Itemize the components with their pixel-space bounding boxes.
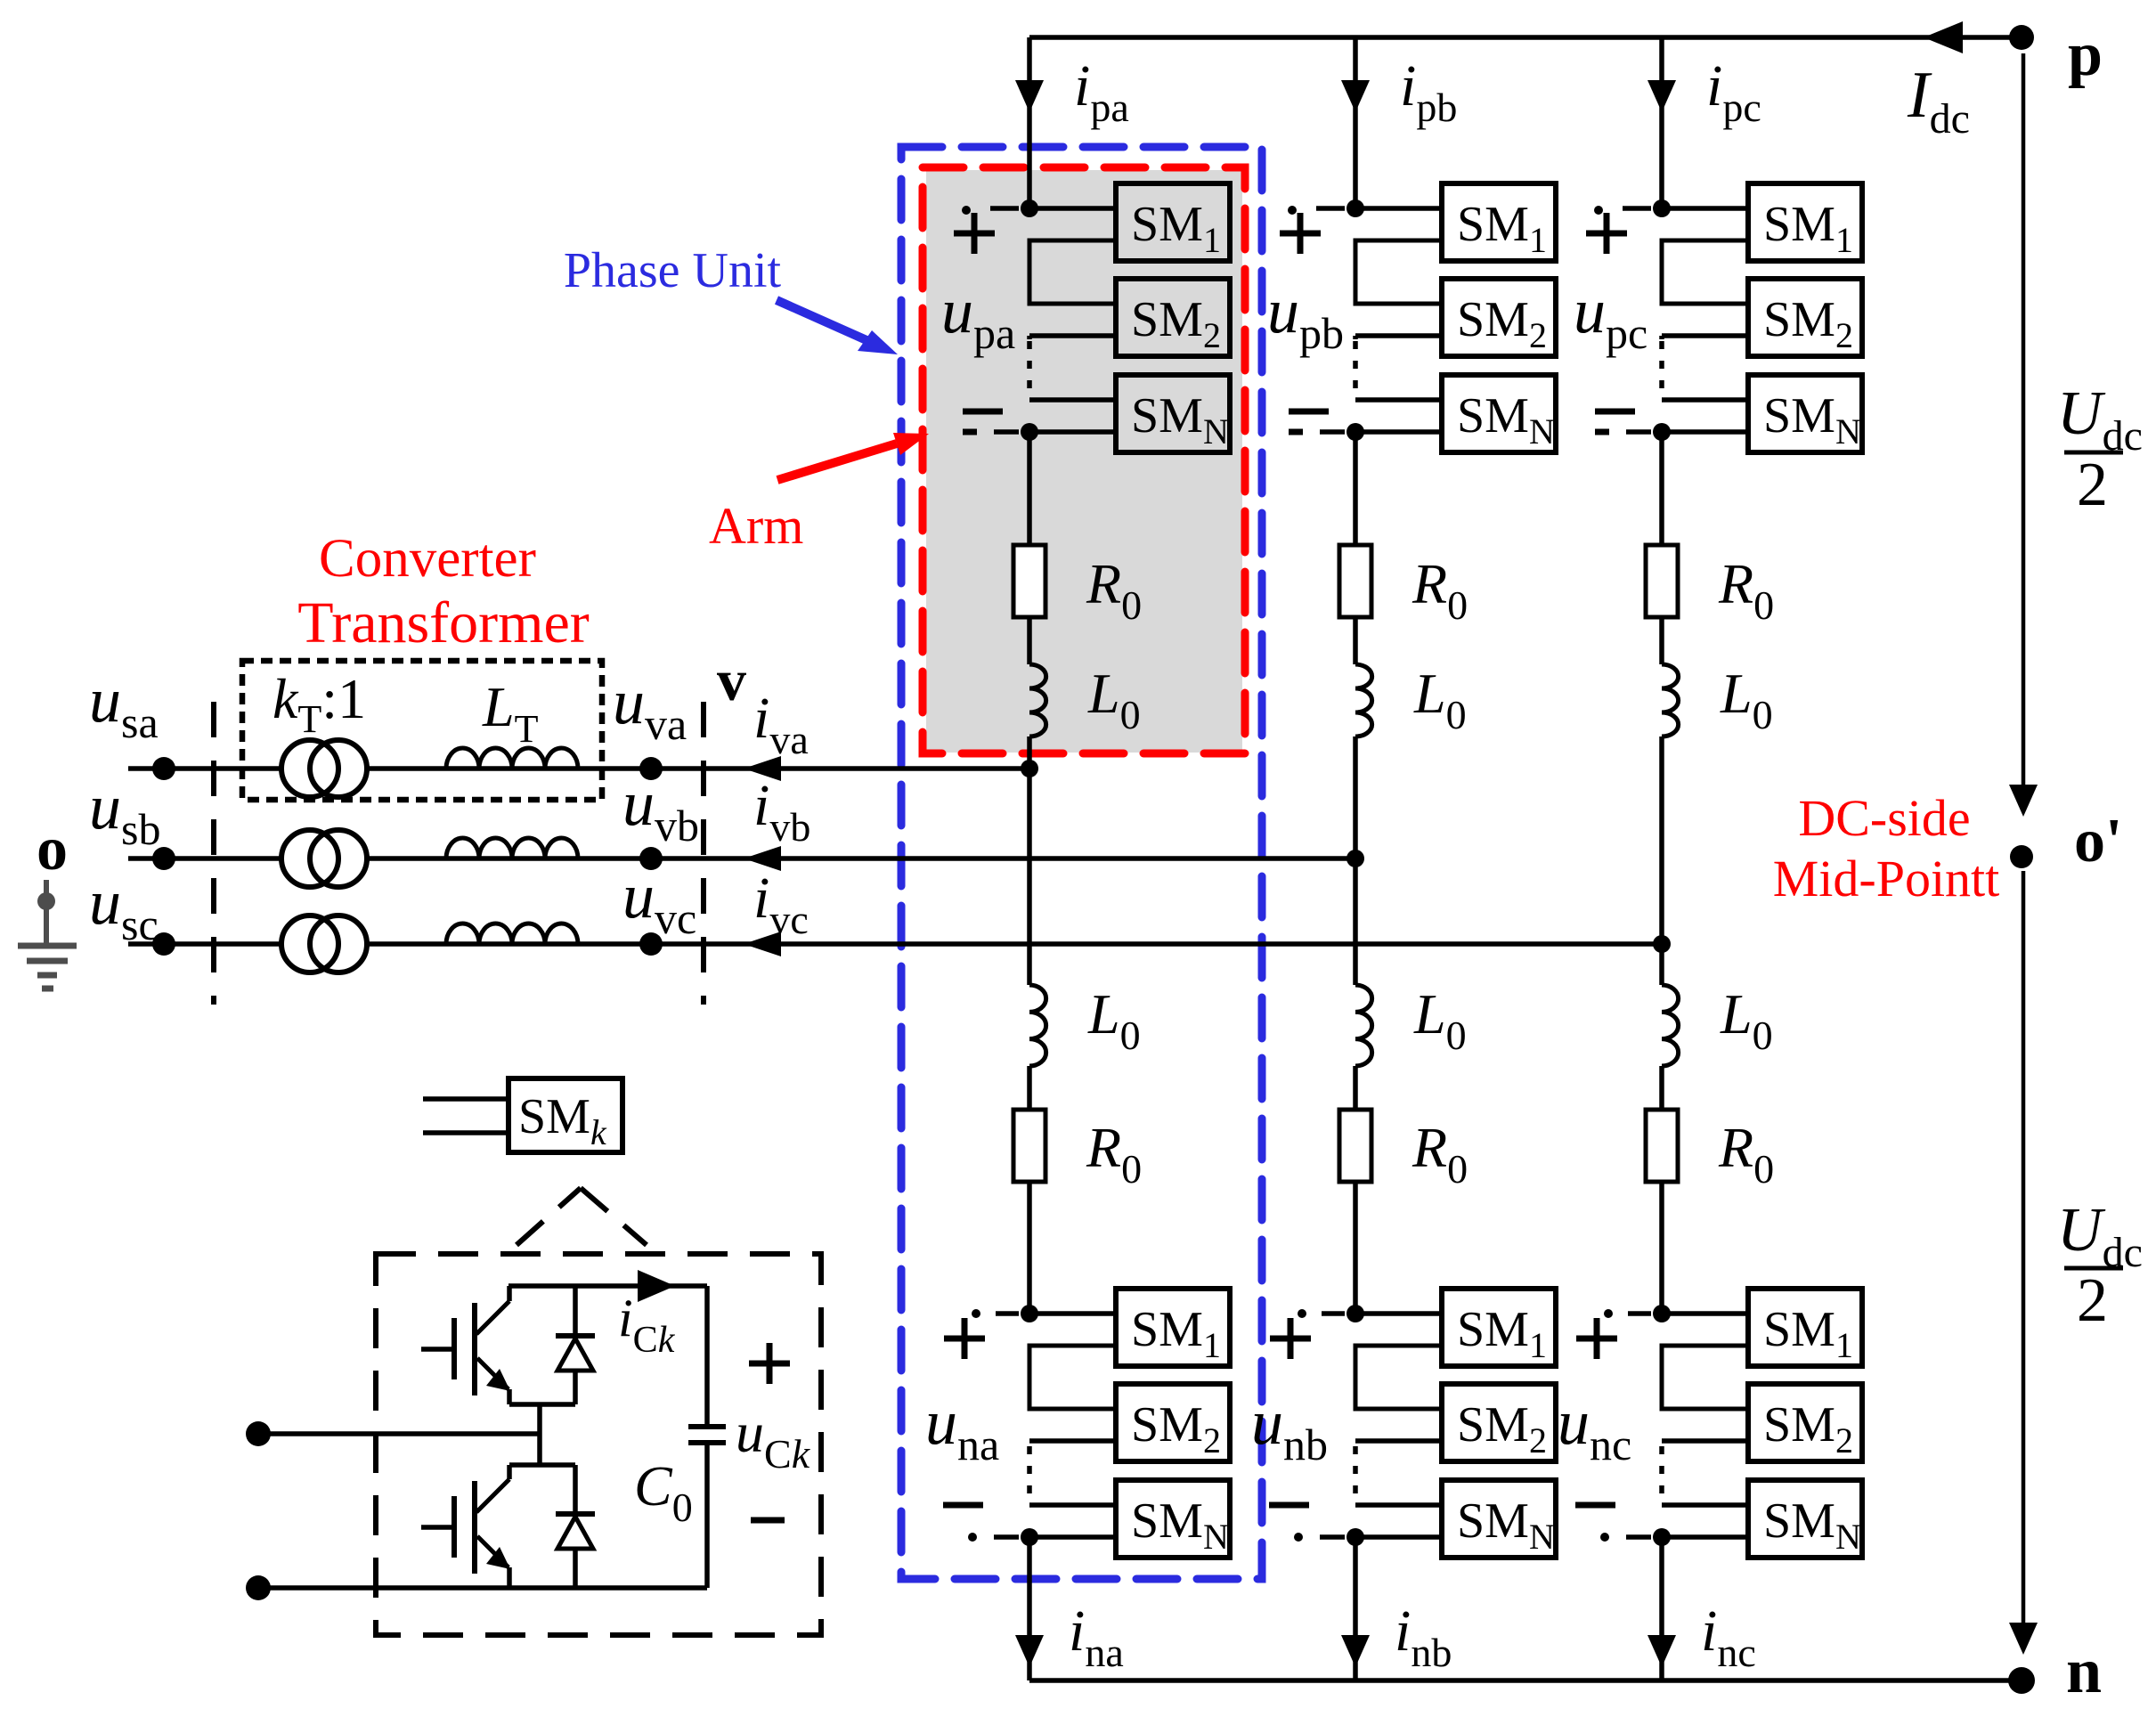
wire: right rail p to o' with arrow [2022,53,2026,785]
node: source terminal u_sa [152,757,175,780]
phase unit blue dashed box [901,147,1262,1579]
node: lower arm b minus junction [1346,1528,1364,1546]
SM detail dashed box [376,1254,821,1635]
svg-text:Transformer: Transformer [297,590,590,655]
dotted continuation upper a [1027,341,1032,396]
node: upper arm a plus junction [1021,199,1038,217]
wire: AC node to L0 lower b [1353,858,1358,985]
svg-text:n: n [2066,1635,2102,1706]
arrow i_vb [744,846,781,871]
node: AC junction c [1653,935,1671,953]
wire: lower stack to bottom bus b [1353,1537,1358,1680]
wire: midpoint stub [537,1404,542,1465]
wire: SMN top stub lower a [1029,1502,1116,1508]
submodule SM1 upper arm b [1442,183,1556,261]
minus sign lower arm a [943,1502,983,1509]
transformer phase b circles [281,830,367,887]
inductor L0 lower arm b [1355,985,1372,1066]
wire: SM1-SM2 link upper c [1662,240,1748,304]
node: lower arm a plus junction [1021,1305,1038,1322]
wire: R0 to lower stack plus junction b [1353,1182,1358,1314]
wire: SMN bottom to minus junction upper c [1662,429,1748,435]
submodule SMN lower arm a [1116,1480,1230,1558]
resistor R0 lower arm b [1339,1110,1371,1182]
minus sign capacitor [751,1518,785,1524]
wire: SMN bottom to minus junction upper a [1029,429,1116,435]
wire: top rail of half bridge [508,1283,707,1289]
wire: AC node to L0 lower c [1659,944,1664,985]
wire: SM1 top link upper b [1355,206,1442,211]
wire: minus junction to R0 upper c [1659,432,1664,545]
dotted continuation lower b [1353,1446,1358,1501]
submodule SM1 lower arm c [1748,1289,1862,1366]
transformer phase c circles [281,915,367,972]
wire: SM2 bottom stub lower a [1029,1438,1116,1444]
wire: SM1 top link lower b [1355,1311,1442,1316]
wire: SM1-SM2 link upper b [1355,240,1442,304]
Idc arrow on top bus [1924,21,1963,53]
wire: bottom rail of half bridge [258,1585,707,1591]
submodule SMN upper arm a [1116,375,1230,452]
svg-text:Mid-Pointt: Mid-Pointt [1773,850,2000,907]
label Udc/2 upper [2057,379,2143,519]
svg-text:Phase Unit: Phase Unit [564,243,782,298]
lead dash-dot at plus terminal b [1288,206,1345,215]
wire: AC phase c line [128,941,282,947]
diode D1 (upper) [556,1286,595,1404]
plus sign capacitor [749,1343,790,1384]
node: upper arm c plus junction [1653,199,1671,217]
wire: SM2 bottom stub upper b [1355,333,1442,338]
wire: L0 to AC node c [1659,736,1664,944]
wire: SM1-SM2 link lower c [1662,1346,1748,1409]
arrow i_va [744,756,781,781]
submodule SMN upper arm b [1442,375,1556,452]
wire: R0 to L0 upper c [1659,617,1664,664]
submodule SM1 lower arm a [1116,1289,1230,1366]
resistor R0 upper arm b [1339,545,1371,617]
svg-text:p: p [2068,20,2103,89]
svg-text:2: 2 [2077,1266,2108,1335]
dashed boundary line at source side [211,702,216,1005]
minus sign upper arm a [963,411,1003,432]
transistor Q2 (lower IGBT) [421,1465,510,1588]
submodule SM1 upper arm c [1748,183,1862,261]
dotted continuation upper c [1659,341,1664,396]
submodule SM1 upper arm a [1116,183,1230,261]
wire: SMN top stub lower c [1662,1502,1748,1508]
wire: L0 to AC node a [1027,736,1032,769]
node: upper arm c minus junction [1653,423,1671,441]
node: lower arm c plus junction [1653,1305,1671,1322]
wire: SMN top stub upper c [1662,397,1748,403]
inductor L0 lower arm c [1662,985,1679,1066]
arrow i_nb [1341,1635,1370,1667]
node: SMk input terminal 1 [246,1421,271,1446]
resistor R0 upper arm a [1013,545,1045,617]
wire: R0 to lower stack plus junction c [1659,1182,1664,1314]
minus sign lower arm b [1269,1502,1309,1509]
wire: SMk stub top [423,1096,508,1102]
label Converter Transformer [297,529,590,655]
wire: SMN bottom to minus junction upper b [1355,429,1442,435]
wire: SMN bottom to minus junction lower b [1355,1534,1442,1540]
node p dot [2009,25,2034,50]
submodule SMN upper arm c [1748,375,1862,452]
inductor L_T phase b [446,838,578,858]
svg-text:Arm: Arm [709,497,803,555]
arrow i_nc [1648,1635,1676,1667]
wire: SM1 top link upper c [1662,206,1748,211]
wire: SMN bottom to minus junction lower c [1662,1534,1748,1540]
resistor R0 lower arm c [1646,1110,1678,1182]
dotted continuation lower a [1027,1446,1032,1501]
wire: AC phase a line [128,766,282,771]
node: lower arm c minus junction [1653,1528,1671,1546]
wire: minus junction to R0 upper a [1027,432,1032,545]
wire: bottom DC bus n rail [1029,1678,2022,1683]
node: AC junction b [1346,850,1364,867]
lead dash-dot at plus terminal a [962,206,1019,215]
wire: SM2 bottom stub upper a [1029,333,1116,338]
node: upper arm a minus junction [1021,423,1038,441]
arrow i_pb [1341,80,1370,112]
wire: right rail o' to n with arrow [2022,871,2026,1623]
capacitor C0 [688,1286,726,1588]
plus sign upper arm a [954,213,995,254]
submodule SM1 lower arm b [1442,1289,1556,1366]
wire: leg a from top bus to upper arm [1027,37,1032,208]
dashed boundary line at valve side v [701,702,706,1005]
wire: L0 to R0 lower a [1027,1066,1032,1110]
node o' dot [2010,845,2033,868]
node: valve-side terminal u_va [639,757,663,780]
node: SMk input terminal 2 [246,1575,271,1600]
plus sign upper arm b [1280,213,1321,254]
inductor L0 upper arm b [1355,664,1372,736]
submodule SM2 lower arm a [1116,1384,1230,1461]
wire: input lead upper [258,1431,540,1436]
wire: SMN top stub upper a [1029,397,1116,403]
blue arrow to phase unit [777,300,898,354]
wire: SM1 top link lower a [1029,1311,1116,1316]
dashed expansion lines [517,1188,647,1245]
node: AC junction a [1021,760,1038,777]
submodule SM2 lower arm c [1748,1384,1862,1461]
node: source terminal u_sb [152,847,175,870]
resistor R0 lower arm a [1013,1110,1045,1182]
wire: R0 to L0 upper a [1027,617,1032,664]
node: valve-side terminal u_vb [639,847,663,870]
wire: leg c from top bus to upper arm [1659,37,1664,208]
lead dash-dot at plus terminal lower c [1604,1309,1651,1318]
arrow i_pa [1015,80,1044,112]
svg-text:2: 2 [2077,451,2108,519]
wire: SM2 bottom stub lower c [1662,1438,1748,1444]
plus sign upper arm c [1586,213,1627,254]
arrow i_na [1015,1635,1044,1667]
transformer phase a circles [281,740,367,797]
node n dot [2008,1667,2035,1694]
resistor R0 upper arm c [1646,545,1678,617]
svg-text:o: o [37,815,68,883]
wire: minus junction to R0 upper b [1353,432,1358,545]
red arrow to arm [777,433,929,480]
svg-text:DC-side: DC-side [1798,789,1970,847]
wire: AC phase b line [128,856,282,861]
wire: SM1-SM2 link lower a [1029,1346,1116,1409]
wire: SMk stub bottom [423,1130,508,1135]
wire: SM1 top link upper a [1029,206,1116,211]
node: upper arm b minus junction [1346,423,1364,441]
submodule SMk reference box [508,1078,622,1152]
arrow i_pc [1648,80,1676,112]
plus sign lower arm b [1270,1318,1311,1359]
submodule SM2 upper arm c [1748,279,1862,356]
lead dash-dot at plus terminal lower b [1298,1309,1345,1318]
inductor L0 lower arm a [1029,985,1046,1066]
wire: lower collector rail [509,1462,575,1468]
wire: AC node to L0 lower a [1027,769,1032,985]
wire: SM1-SM2 link upper a [1029,240,1116,304]
lead dash-dot at minus terminal lower c [1600,1533,1651,1542]
wire: SM2 bottom stub upper c [1662,333,1748,338]
node: lower arm a minus junction [1021,1528,1038,1546]
wire: SMN top stub upper b [1355,397,1442,403]
submodule SM2 lower arm b [1442,1384,1556,1461]
converter transformer dotted box [242,661,602,800]
lead dash-dot at minus terminal lower b [1294,1533,1345,1542]
minus sign upper arm b [1289,411,1329,432]
submodule SMN lower arm b [1442,1480,1556,1558]
wire: top DC bus p rail [1029,35,2022,40]
wire: SM1-SM2 link lower b [1355,1346,1442,1409]
minus sign upper arm c [1595,411,1635,432]
dotted continuation upper b [1353,341,1358,396]
minus sign lower arm c [1575,1502,1615,1509]
label Udc/2 lower [2057,1196,2143,1335]
wire: L0 to R0 lower c [1659,1066,1664,1110]
wire: L0 to AC node b [1353,736,1358,858]
inductor L_T phase a [446,748,578,769]
dotted continuation lower c [1659,1446,1664,1501]
arrow i_vc [744,932,781,956]
diode D2 (lower) [556,1465,595,1588]
wire: SMN bottom to minus junction lower a [1029,1534,1116,1540]
lead dash at minus terminal upper a [994,429,1019,435]
plus sign lower arm c [1576,1318,1617,1359]
label DC-side Mid-Pointt [1773,789,2000,907]
svg-text:Converter: Converter [319,529,536,589]
wire: SM1 top link lower c [1662,1311,1748,1316]
lead dash-dot at plus terminal c [1594,206,1651,215]
inductor L_T phase c [446,924,578,944]
wire: upper emitter rail [509,1402,575,1407]
wire: SMN top stub lower b [1355,1502,1442,1508]
wire: R0 to lower stack plus junction a [1027,1182,1032,1314]
lead dash-dot at plus terminal lower a [972,1309,1019,1318]
ground symbol [18,880,77,989]
node: source terminal u_sc [152,932,175,956]
inductor L0 upper arm a [1029,664,1046,736]
inductor L0 upper arm c [1662,664,1679,736]
lead dash-dot at minus terminal lower a [968,1533,1019,1542]
submodule SMN lower arm c [1748,1480,1862,1558]
wire: L0 to R0 lower b [1353,1066,1358,1110]
wire: R0 to L0 upper b [1353,617,1358,664]
transistor Q1 (upper IGBT) [421,1286,510,1404]
node: upper arm b plus junction [1346,199,1364,217]
svg-text:o': o' [2074,807,2122,875]
plus sign lower arm a [944,1318,985,1359]
lead dash at minus terminal upper b [1320,429,1345,435]
submodule SM2 upper arm a [1116,279,1230,356]
node: lower arm b plus junction [1346,1305,1364,1322]
lead dash at minus terminal upper c [1626,429,1651,435]
arm grey highlight (phase a upper arm) [926,170,1242,753]
submodule SM2 upper arm b [1442,279,1556,356]
node: valve-side terminal u_vc [639,932,663,956]
svg-text:v: v [717,648,746,713]
wire: lower stack to bottom bus c [1659,1537,1664,1680]
wire: leg b from top bus to upper arm [1353,37,1358,208]
wire: lower stack to bottom bus a [1027,1537,1032,1680]
wire: SM2 bottom stub lower b [1355,1438,1442,1444]
arrow i_Ck [638,1270,675,1302]
arm red dashed box [923,167,1245,753]
